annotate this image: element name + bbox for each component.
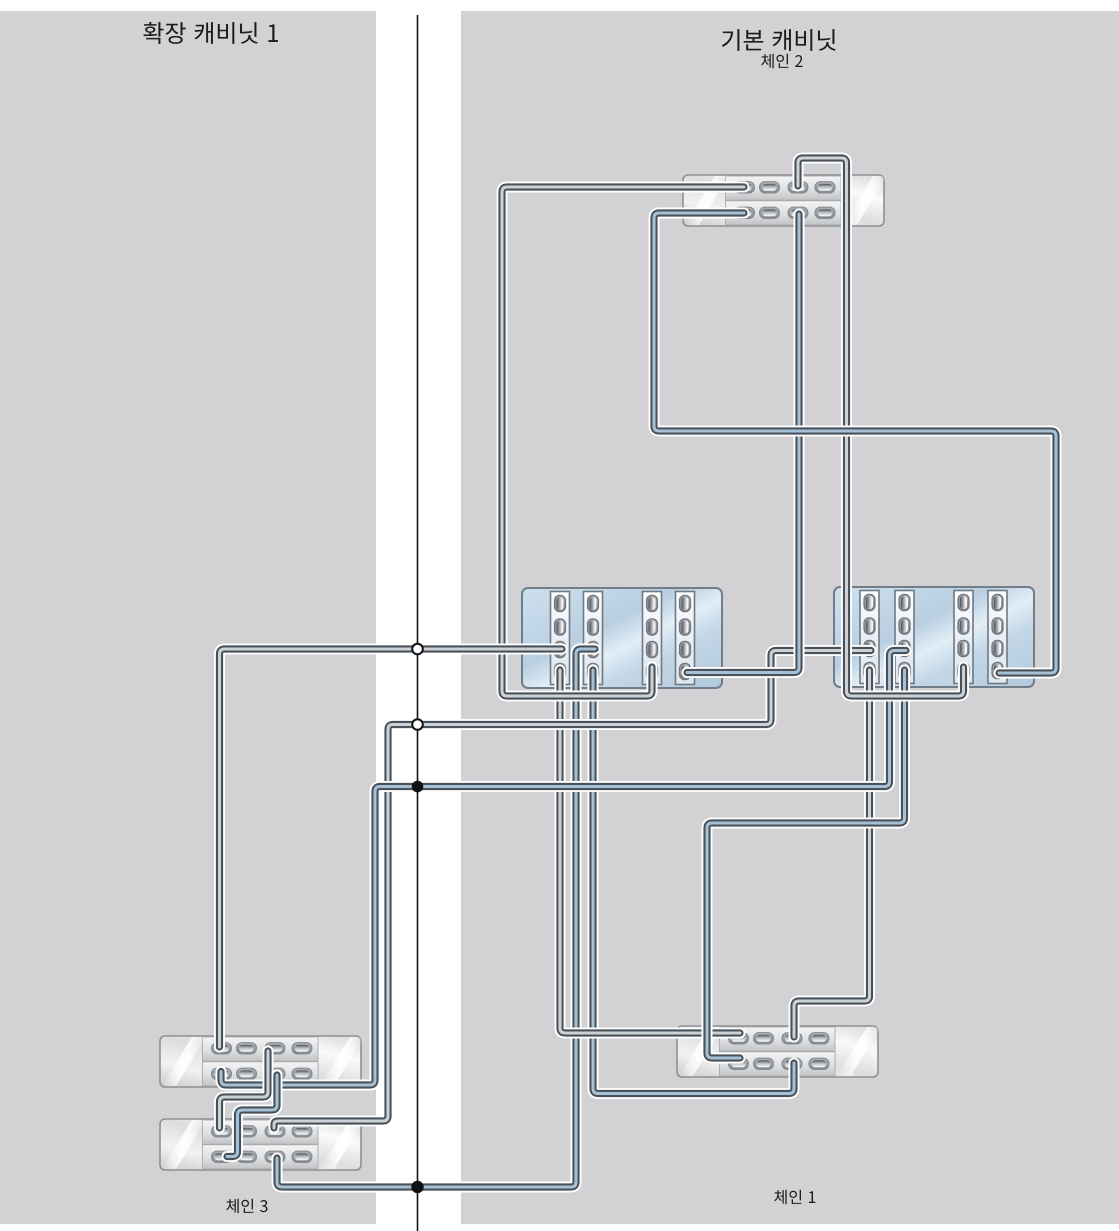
cable K14: controller C2 slot2 p4 - shelf S1 bottom IOM p1 <box>707 670 905 1058</box>
controller C2 (right controller) <box>834 587 1034 687</box>
cable K12: controller C1 slot2 p4 - shelf S1 bottom IOM p3 <box>593 670 794 1094</box>
label: expansion cabinet 1 (확장 캐비닛 1) <box>143 22 278 44</box>
cable K10: controller C1 slot2 p3 - shelf S3b bottom IOM p3 <box>277 649 595 1187</box>
disk shelf S1 (chain 1 disk shelf, bottom right) <box>677 1026 881 1077</box>
label: base cabinet (기본 캐비닛) <box>722 29 836 51</box>
disk shelf S2 (chain 2 disk shelf, top right) <box>683 175 887 226</box>
base cabinet panel (right) <box>461 11 1119 1224</box>
boundary junction dot on cable K10 <box>411 1181 423 1193</box>
boundary crossing marker: open circle on cable K5 <box>412 719 423 730</box>
cabinet divider line <box>417 15 419 1231</box>
cable L2: shelf S3a bottom IOM p3 - shelf S3b bottom IOM p1 <box>227 1075 277 1157</box>
disk shelf S3b (chain 3 disk shelf B, bottom left) <box>160 1119 364 1170</box>
boundary crossing marker: open circle on cable K9 <box>412 644 423 655</box>
cable K2: shelf S2 top IOM p3 - controller C2 slot3 p4 <box>798 158 964 696</box>
cable K11: controller C1 slot1 p4 - shelf S1 top IOM p1 <box>560 670 740 1033</box>
boundary junction dot on cable K6 <box>412 781 424 793</box>
label: chain 3 (체인 3) <box>226 1199 267 1213</box>
disk shelf S3a (chain 3 disk shelf A, bottom left) <box>160 1036 364 1087</box>
label: chain 1 (체인 1) <box>774 1190 815 1204</box>
cable K7: controller C2 slot1 p4 - shelf S1 top IOM p3 <box>794 670 870 1037</box>
cable K9: controller C1 slot1 p3 - shelf S3a top IOM p1 <box>220 649 563 1047</box>
cable K4: shelf S2 bottom IOM p3 - controller C1 slot4 p4 <box>687 214 799 673</box>
expansion cabinet panel (left) <box>0 11 376 1224</box>
controller C1 (left controller) <box>522 588 722 688</box>
cable K6: controller C2 slot2 p3 - shelf S3a bottom IOM p1 <box>221 651 906 1086</box>
cable K1: shelf S2 top IOM p1 - controller C1 slot3 p4 <box>502 187 744 696</box>
cable K5: controller C2 slot1 p3 - shelf S3b top IOM p3 <box>274 651 871 1129</box>
label: chain 2 (체인 2) <box>761 54 802 68</box>
cable L1: shelf S3a top IOM p3 - shelf S3b top IOM p1 <box>220 1051 269 1128</box>
cable K3: shelf S2 bottom IOM p1 - controller C2 slot4 p4 <box>654 213 1056 673</box>
